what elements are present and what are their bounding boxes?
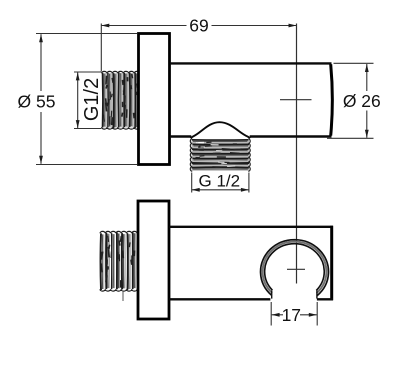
dimension line G1/2 side thread [76,72,80,128]
svg-text:G 1/2: G 1/2 [199,171,241,190]
svg-text:Ø 26: Ø 26 [343,91,381,111]
dimension G 1/2 bottom: extension lines [191,173,193,193]
bottom view wall flange [138,201,169,319]
top view side thread (left, hatched) [102,71,140,129]
holder ring inner arc [265,244,325,291]
dome above bottom thread [191,122,251,138]
down-facing thread G 1/2 (hatched) [190,139,250,171]
svg-text:17: 17 [282,305,301,325]
top view centre cross [280,99,312,101]
dimension line 17 [272,313,317,317]
holder ring outer arc [261,240,329,296]
centerline through both views [296,24,298,284]
top view body outline [170,63,332,136]
svg-text:Ø 55: Ø 55 [18,92,56,112]
dimension line D26 [365,64,369,138]
bottom view centre cross [287,268,305,270]
dimension line D55 [39,34,43,164]
extension line left of 69 [100,24,102,72]
holder ring slot edges [271,291,273,299]
dimension line 69 [101,24,296,28]
top view body end cap [331,64,333,135]
thread runout line [122,291,124,302]
holder ring band shading [263,242,327,293]
svg-text:G1/2: G1/2 [81,78,103,121]
dimension line G 1/2 bottom [192,188,249,192]
svg-text:69: 69 [189,16,208,36]
top view wall flange [139,34,170,165]
bottom view body outline [169,226,333,300]
bottom view side thread (left, hatched) [100,231,137,291]
dimension D26: extension lines [334,62,374,64]
dimension 17: extension lines [270,302,272,326]
extension lines D55 [36,33,137,35]
extension lines G1/2 [74,71,101,73]
